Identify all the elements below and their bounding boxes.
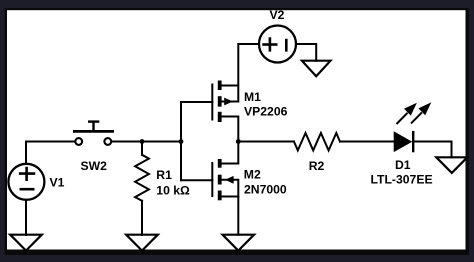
svg-text:SW2: SW2 (81, 159, 108, 173)
svg-text:V1: V1 (50, 175, 65, 189)
svg-text:D1: D1 (395, 158, 411, 172)
svg-text:V2: V2 (270, 8, 285, 22)
svg-text:R1: R1 (156, 168, 172, 182)
svg-text:R2: R2 (309, 159, 325, 173)
svg-text:10 kΩ: 10 kΩ (156, 183, 190, 197)
svg-text:M1: M1 (244, 90, 261, 104)
svg-text:VP2206: VP2206 (244, 105, 288, 119)
svg-text:2N7000: 2N7000 (244, 183, 287, 197)
svg-text:M2: M2 (244, 168, 261, 182)
svg-text:LTL-307EE: LTL-307EE (371, 173, 433, 187)
